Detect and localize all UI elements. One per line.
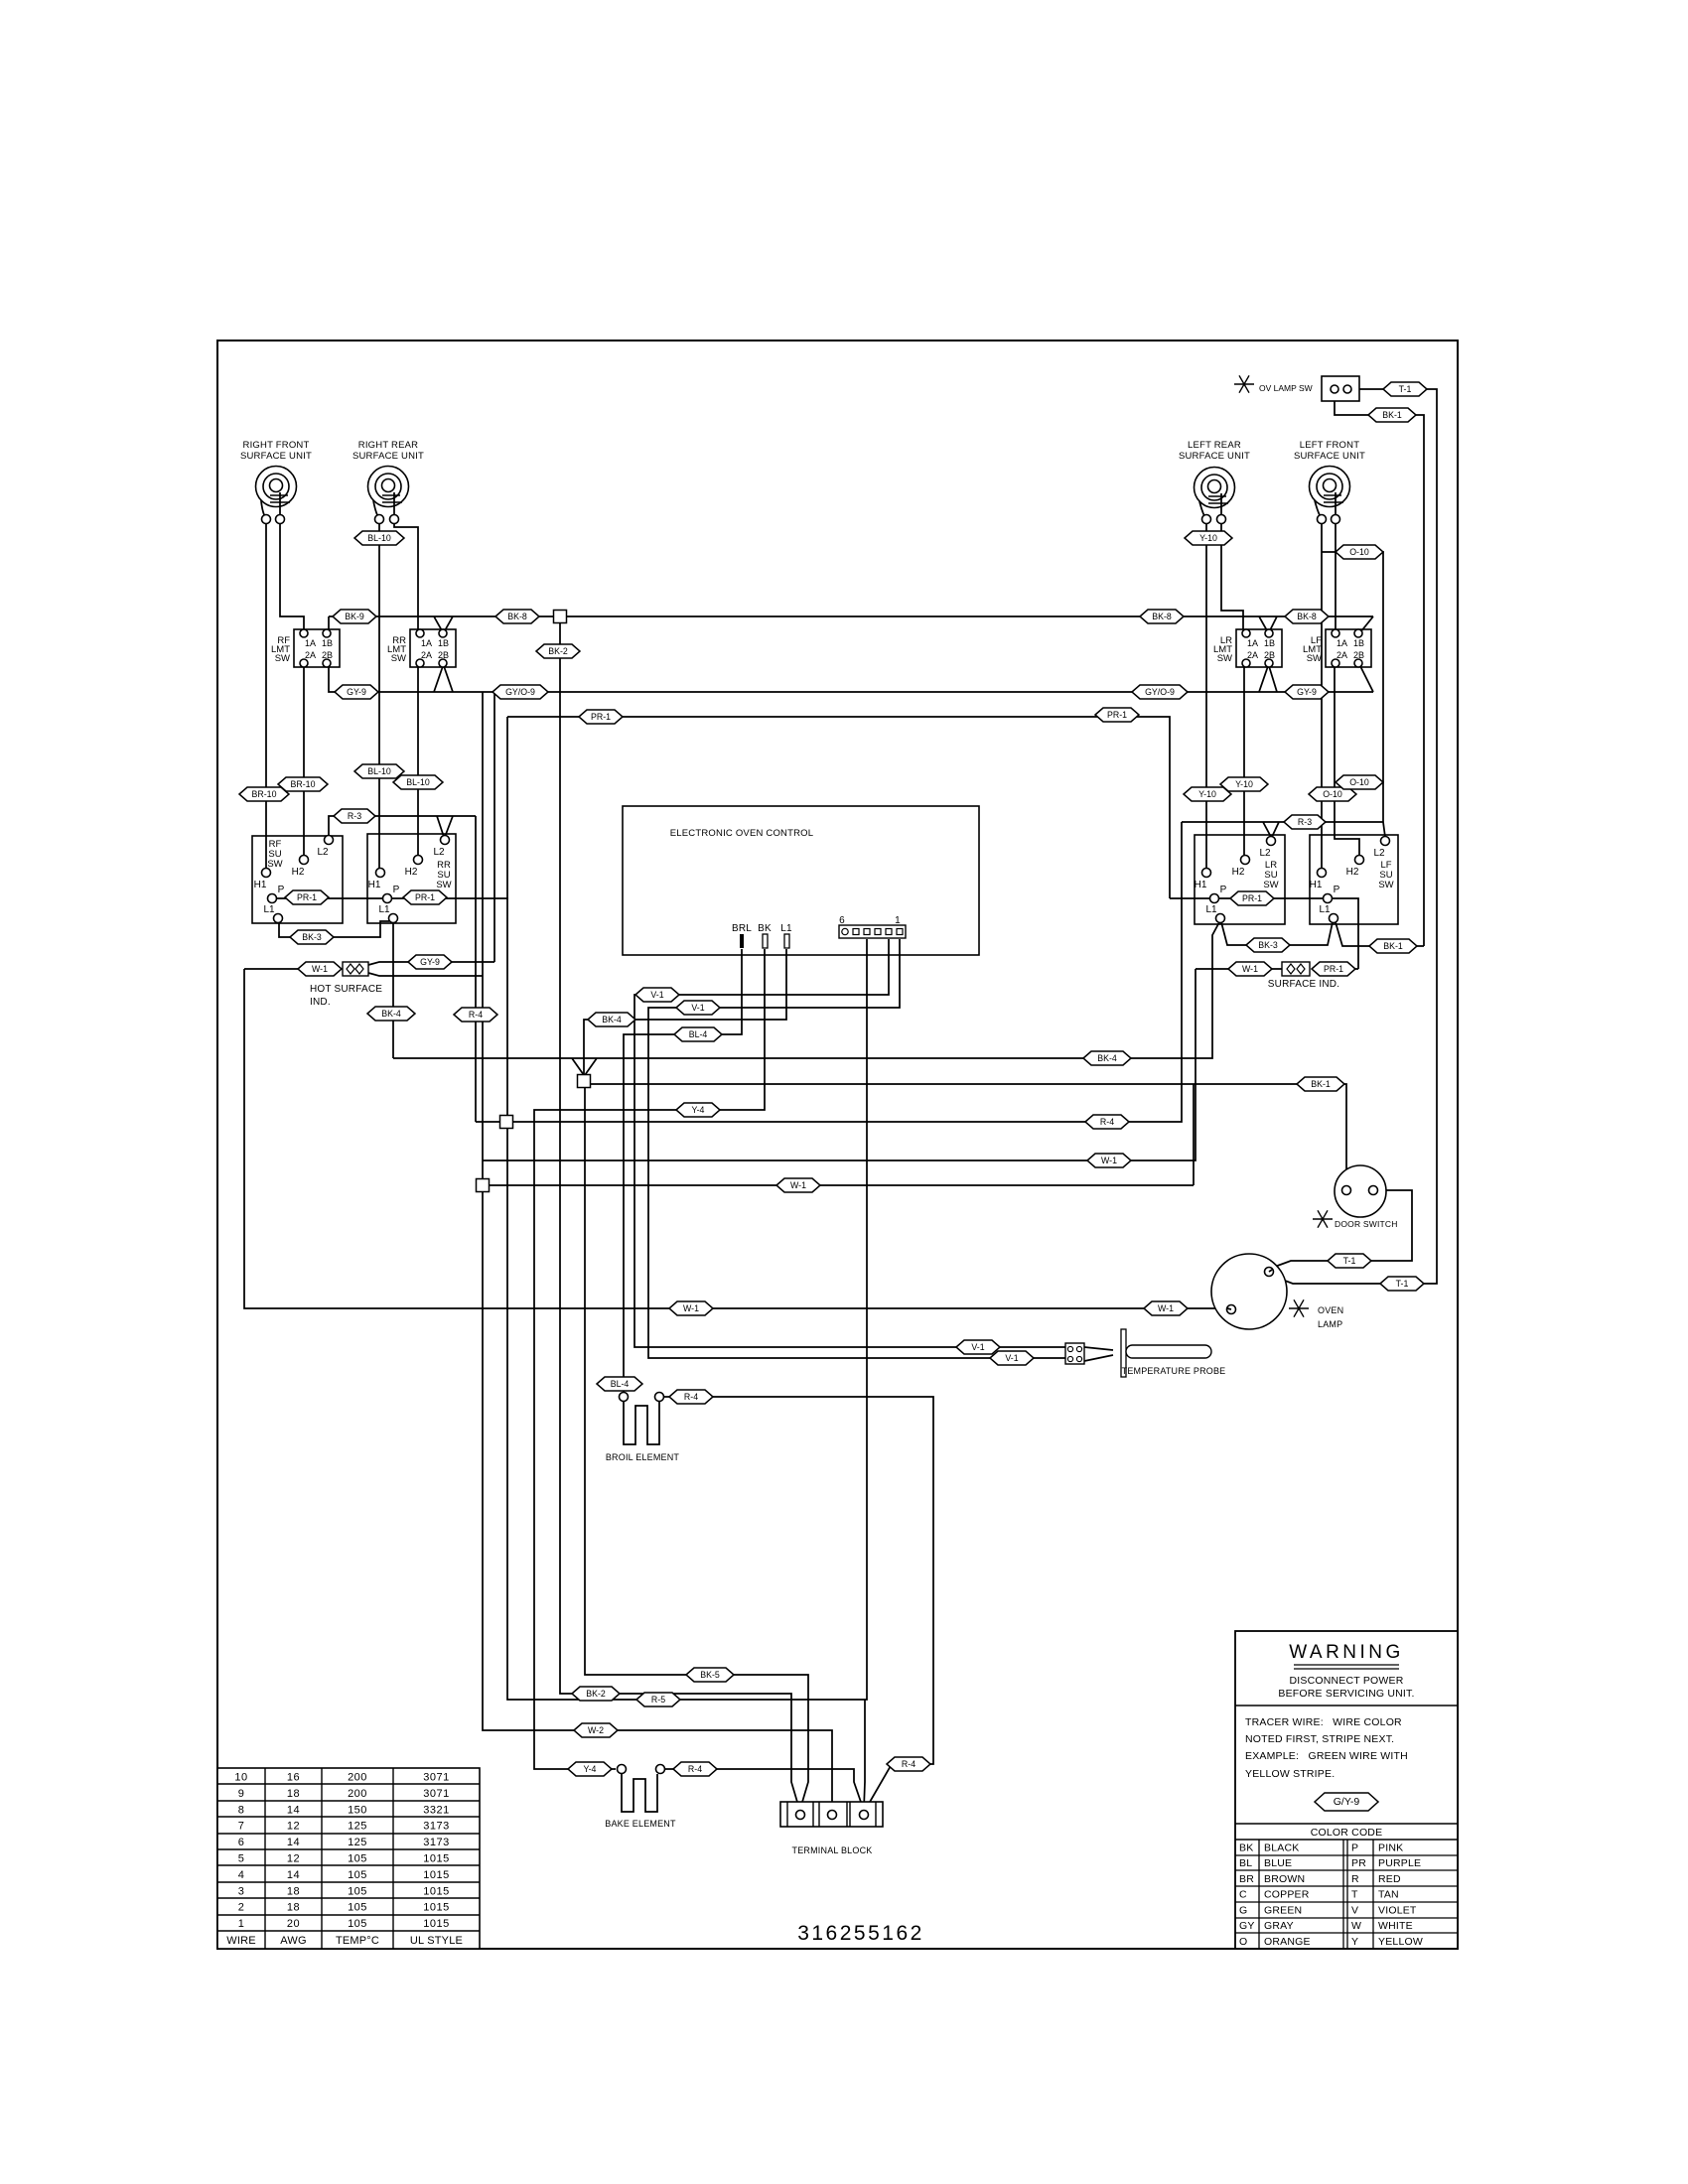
svg-text:1015: 1015	[423, 1853, 449, 1865]
wire BK-1 from oven lamp switch down to LF switch L1 net	[1335, 401, 1424, 946]
svg-text:200: 200	[348, 1772, 367, 1784]
wire label BK-3 right	[1246, 938, 1290, 952]
wire RR LMT 2A to RR SU H2	[417, 667, 419, 855]
svg-text:L2: L2	[1373, 848, 1385, 859]
svg-text:T-1: T-1	[1343, 1256, 1356, 1266]
svg-text:ORANGE: ORANGE	[1264, 1936, 1311, 1948]
svg-text:SURFACE IND.: SURFACE IND.	[1268, 979, 1339, 990]
terminal block	[780, 1802, 883, 1827]
wire label BK-8 b	[1140, 610, 1184, 623]
wire W-1 right surface indicator	[1196, 968, 1282, 970]
wire GY-9/GY-O-9 bus across limit switches	[329, 666, 1373, 692]
wire label BK-8 c	[1285, 610, 1329, 623]
svg-text:V-1: V-1	[691, 1003, 704, 1013]
svg-text:T: T	[1351, 1889, 1358, 1901]
connector label T-1 top	[1383, 382, 1427, 396]
svg-text:BK-8: BK-8	[1297, 612, 1317, 621]
svg-text:14: 14	[287, 1869, 300, 1881]
svg-text:BK-1: BK-1	[1311, 1079, 1331, 1089]
svg-text:V-1: V-1	[971, 1342, 984, 1352]
wire R-4 broil element to terminal block	[664, 1397, 933, 1809]
coil RIGHT FRONT SURFACE UNIT	[256, 467, 297, 524]
label HOT SURFACE IND	[310, 984, 382, 1008]
svg-text:BEFORE SERVICING UNIT.: BEFORE SERVICING UNIT.	[1278, 1688, 1414, 1700]
wire label W-1 bottom mid	[669, 1301, 713, 1315]
svg-text:R-5: R-5	[651, 1695, 665, 1705]
wire label BK-5	[686, 1668, 734, 1682]
svg-text:BK-4: BK-4	[602, 1015, 622, 1024]
svg-text:W-1: W-1	[790, 1180, 806, 1190]
wire BK-4 run RR L1 to LR L1	[393, 922, 1219, 1075]
wire label BK-4 RR	[367, 1007, 415, 1021]
svg-text:20: 20	[287, 1918, 300, 1930]
wire label BR-10 right	[278, 777, 328, 791]
svg-text:H1: H1	[368, 880, 381, 890]
switch RF LMT SW	[271, 629, 340, 667]
wire GY-9 from hot surface indicator lower	[368, 973, 483, 976]
wire PR-1 left P line	[277, 717, 507, 898]
svg-text:BLUE: BLUE	[1264, 1857, 1292, 1869]
svg-text:PR-1: PR-1	[591, 712, 611, 722]
junction node 1	[578, 1075, 591, 1088]
svg-text:IND.: IND.	[310, 997, 331, 1008]
wire LR LMT 2A to LR SU H2	[1243, 667, 1245, 855]
svg-text:GY: GY	[1239, 1920, 1255, 1932]
label BAKE ELEMENT	[605, 1819, 676, 1829]
lamp OVEN LAMP	[1211, 1254, 1287, 1329]
svg-text:LEFT REAR: LEFT REAR	[1188, 440, 1241, 451]
svg-text:H2: H2	[1232, 867, 1245, 878]
wire label W-1 surface ind	[1228, 962, 1272, 976]
wire label V-1 a	[635, 988, 679, 1002]
svg-text:W-1: W-1	[1101, 1156, 1117, 1165]
wire R-3 right between LR L2 and LF L2	[1182, 822, 1385, 837]
label part number 316255162	[797, 1922, 924, 1945]
svg-text:2: 2	[238, 1902, 245, 1914]
svg-text:OVEN: OVEN	[1318, 1305, 1343, 1315]
svg-text:T-1: T-1	[1399, 384, 1412, 394]
wire label V-1 probe upper	[956, 1340, 1000, 1354]
svg-text:O-10: O-10	[1349, 777, 1369, 787]
svg-text:1B: 1B	[322, 638, 333, 648]
svg-text:18: 18	[287, 1788, 300, 1800]
wire label BK-8 a	[495, 610, 539, 623]
svg-text:PR-1: PR-1	[415, 892, 435, 902]
wire label W-1 long	[776, 1178, 820, 1192]
wire W-2 junction3 drop to terminal block	[483, 1189, 832, 1810]
svg-text:316255162: 316255162	[797, 1922, 924, 1945]
svg-text:ELECTRONIC OVEN CONTROL: ELECTRONIC OVEN CONTROL	[670, 828, 813, 839]
svg-text:GY-9: GY-9	[347, 687, 366, 697]
asterisk DOOR SWITCH	[1313, 1210, 1333, 1227]
svg-text:Y-10: Y-10	[1199, 533, 1217, 543]
svg-text:HOT SURFACE: HOT SURFACE	[310, 984, 382, 995]
svg-text:Y-10: Y-10	[1235, 779, 1253, 789]
svg-text:3173: 3173	[423, 1837, 449, 1848]
svg-text:H2: H2	[292, 867, 305, 878]
wire label Y-4 bake	[568, 1762, 612, 1776]
wire T-1 from oven lamp switch to oven lamp (right vertical)	[1272, 389, 1437, 1284]
label ELECTRONIC OVEN CONTROL	[670, 828, 813, 839]
svg-text:RIGHT FRONT: RIGHT FRONT	[243, 440, 310, 451]
wire label O-10 left	[1309, 787, 1356, 801]
svg-text:TEMPERATURE PROBE: TEMPERATURE PROBE	[1122, 1366, 1226, 1376]
wire label Y-10 left	[1184, 787, 1231, 801]
label TERMINAL BLOCK	[792, 1845, 873, 1855]
svg-text:GRAY: GRAY	[1264, 1920, 1294, 1932]
svg-text:W: W	[1351, 1920, 1361, 1932]
svg-text:4: 4	[238, 1869, 245, 1881]
switch RR LMT SW	[387, 629, 456, 667]
wire label Y-4 upper	[676, 1103, 720, 1117]
svg-text:SW: SW	[267, 859, 282, 870]
wire R-4 run to right riser	[476, 822, 1182, 1122]
warning and color code panel	[1235, 1631, 1458, 1949]
svg-text:BK-9: BK-9	[345, 612, 364, 621]
wire label BL-10 upper	[354, 531, 404, 545]
svg-text:R-4: R-4	[902, 1759, 915, 1769]
svg-text:YELLOW STRIPE.: YELLOW STRIPE.	[1245, 1768, 1335, 1780]
svg-text:PR-1: PR-1	[1324, 964, 1343, 974]
svg-text:WHITE: WHITE	[1378, 1920, 1413, 1932]
svg-text:105: 105	[348, 1853, 367, 1865]
wire R-4 riser left (R-3 to R-4 run)	[475, 816, 477, 1122]
wire label R-4 long	[1085, 1115, 1129, 1129]
wire LF LMT 2A to LF SU H2	[1335, 667, 1359, 855]
svg-text:WARNING: WARNING	[1289, 1642, 1404, 1663]
svg-text:O-10: O-10	[1349, 547, 1369, 557]
svg-text:RIGHT REAR: RIGHT REAR	[358, 440, 418, 451]
asterisk OV LAMP SW	[1234, 375, 1254, 392]
svg-text:BR: BR	[1239, 1873, 1254, 1885]
svg-text:125: 125	[348, 1821, 367, 1833]
wire label BL-4 upper	[674, 1027, 722, 1041]
asterisk OVEN LAMP	[1289, 1299, 1309, 1316]
svg-text:O-10: O-10	[1323, 789, 1342, 799]
svg-text:2A: 2A	[1336, 650, 1347, 660]
svg-text:12: 12	[287, 1821, 300, 1833]
wire W-1 long run junction3 east	[483, 1184, 1194, 1186]
switch LR LMT SW	[1213, 629, 1282, 667]
wire label T-1 lamp upper	[1328, 1254, 1371, 1268]
svg-text:L2: L2	[317, 847, 329, 858]
wire label GY/O-9 a	[492, 685, 548, 699]
svg-text:14: 14	[287, 1804, 300, 1816]
wire RF coil left lead to H1	[265, 523, 267, 869]
svg-text:DOOR SWITCH: DOOR SWITCH	[1335, 1219, 1398, 1229]
pin EOC L1	[780, 923, 792, 948]
table wire gauge	[217, 1768, 480, 1949]
svg-text:SW: SW	[1378, 880, 1393, 890]
wire label BL-10 right	[393, 775, 443, 789]
svg-text:1: 1	[238, 1918, 245, 1930]
svg-text:H1: H1	[254, 880, 267, 890]
svg-text:2A: 2A	[421, 650, 432, 660]
svg-text:GREEN: GREEN	[1264, 1904, 1302, 1916]
svg-text:BK-8: BK-8	[1152, 612, 1172, 621]
wire label PR-1 RF	[285, 890, 329, 904]
svg-text:7: 7	[238, 1821, 245, 1833]
svg-text:BRL: BRL	[732, 923, 752, 934]
svg-text:V: V	[1351, 1904, 1358, 1916]
wire BK-9/BK-8 bus across limit switches	[329, 616, 1373, 632]
svg-text:1: 1	[895, 915, 901, 926]
label SURFACE IND	[1268, 979, 1339, 990]
wire label GY/O-9 b	[1132, 685, 1188, 699]
wire BK-2 from BK-9 junction down to terminal block	[560, 622, 799, 1809]
wire LR coil left lead to H1	[1205, 523, 1207, 868]
svg-text:Y-4: Y-4	[692, 1105, 705, 1115]
svg-text:GY-9: GY-9	[420, 957, 440, 967]
wire label BK-9	[333, 610, 376, 623]
svg-text:GY-9: GY-9	[1297, 687, 1317, 697]
svg-text:6: 6	[839, 915, 845, 926]
svg-text:BK-2: BK-2	[586, 1689, 606, 1699]
svg-text:18: 18	[287, 1902, 300, 1914]
junction node BK bus	[554, 611, 567, 623]
wire BK-1 junction1 to door switch left pin	[590, 1084, 1346, 1185]
coil LEFT FRONT SURFACE UNIT	[1310, 467, 1350, 524]
svg-text:BK: BK	[758, 923, 772, 934]
svg-text:P: P	[1351, 1843, 1358, 1854]
label OV LAMP SW	[1259, 383, 1313, 393]
wire label Y-10 right	[1220, 777, 1268, 791]
svg-text:2A: 2A	[305, 650, 316, 660]
svg-text:COPPER: COPPER	[1264, 1889, 1310, 1901]
wire R-3 left between RF L2 and RR L2	[329, 816, 476, 837]
svg-text:1015: 1015	[423, 1918, 449, 1930]
svg-text:SURFACE UNIT: SURFACE UNIT	[1294, 451, 1365, 462]
label RIGHT FRONT SURFACE UNIT	[240, 440, 312, 462]
svg-text:BK-4: BK-4	[381, 1009, 401, 1019]
element BAKE ELEMENT	[618, 1765, 665, 1813]
svg-text:16: 16	[287, 1772, 300, 1784]
wire W-1 upper run from surface indicator	[483, 969, 1196, 1160]
svg-text:BROWN: BROWN	[1264, 1873, 1305, 1885]
svg-text:BR-10: BR-10	[252, 789, 277, 799]
svg-text:V-1: V-1	[1005, 1353, 1018, 1363]
wire label R-5	[636, 1693, 680, 1706]
svg-text:PR-1: PR-1	[297, 892, 317, 902]
wire label GY-9 b	[1285, 685, 1329, 699]
wire label PR-1 RR	[403, 890, 447, 904]
svg-text:8: 8	[238, 1804, 245, 1816]
svg-text:P: P	[1334, 885, 1340, 895]
wire GY tap down to junction3	[482, 692, 484, 1180]
svg-text:1B: 1B	[438, 638, 449, 648]
svg-text:Y-10: Y-10	[1198, 789, 1216, 799]
wire label BK-1 right	[1369, 939, 1417, 953]
svg-text:2B: 2B	[1264, 650, 1275, 660]
svg-text:G/Y-9: G/Y-9	[1334, 1796, 1360, 1808]
svg-text:P: P	[278, 885, 285, 895]
svg-text:G: G	[1239, 1904, 1247, 1916]
label LEFT REAR SURFACE UNIT	[1179, 440, 1250, 462]
svg-text:R-4: R-4	[469, 1010, 483, 1020]
svg-text:SW: SW	[1263, 880, 1278, 890]
wire label O-10 right	[1336, 775, 1383, 789]
svg-text:18: 18	[287, 1885, 300, 1897]
wire LR coil right lead to LR LMT 1A	[1221, 523, 1243, 629]
wire label O-10 upper	[1336, 545, 1383, 559]
connector EOC 6-pin	[839, 915, 906, 938]
svg-text:R-4: R-4	[688, 1764, 702, 1774]
svg-text:BLACK: BLACK	[1264, 1843, 1299, 1854]
wire label GY-9 a	[335, 685, 378, 699]
svg-text:1B: 1B	[1264, 638, 1275, 648]
label OVEN LAMP	[1318, 1305, 1343, 1329]
label DOOR SWITCH	[1335, 1219, 1398, 1229]
svg-text:SURFACE UNIT: SURFACE UNIT	[240, 451, 312, 462]
wire label R-4 broil	[669, 1390, 713, 1404]
svg-text:H2: H2	[1346, 867, 1359, 878]
svg-text:BL-4: BL-4	[689, 1029, 708, 1039]
drawing border frame	[217, 341, 1458, 1949]
wire label PR-1 LR	[1230, 891, 1274, 905]
wire label R-4 left riser	[454, 1008, 497, 1022]
svg-text:BL-10: BL-10	[367, 766, 391, 776]
svg-text:BK-1: BK-1	[1383, 941, 1403, 951]
svg-text:L2: L2	[1259, 848, 1271, 859]
wire W-1 bottom run to oven lamp	[244, 969, 1227, 1308]
wire label BL-10 left	[354, 764, 404, 778]
wire label BK-3 left	[290, 930, 334, 944]
svg-text:3071: 3071	[423, 1772, 449, 1784]
svg-text:SW: SW	[436, 880, 451, 890]
svg-text:1015: 1015	[423, 1902, 449, 1914]
svg-text:1A: 1A	[305, 638, 316, 648]
wire GY-9 from hot surface indicator upper	[368, 962, 494, 965]
switch LF LMT SW	[1303, 629, 1371, 667]
svg-text:W-1: W-1	[1242, 964, 1258, 974]
label LEFT FRONT SURFACE UNIT	[1294, 440, 1365, 462]
svg-text:105: 105	[348, 1869, 367, 1881]
wire label BK-4 mid	[588, 1013, 635, 1026]
svg-text:YELLOW: YELLOW	[1378, 1936, 1423, 1948]
wire O-10 branch LF left lead to L2 riser	[1322, 552, 1383, 822]
wire PR-1 long run	[507, 717, 1170, 898]
svg-text:SURFACE UNIT: SURFACE UNIT	[352, 451, 424, 462]
wire Y-4 from EOC BK pin to bake element	[534, 949, 765, 1769]
wire label W-1 lamp left	[1144, 1301, 1188, 1315]
wire BK-3 left between RF L1 and RR L1	[279, 921, 389, 937]
svg-text:OV LAMP SW: OV LAMP SW	[1259, 383, 1313, 393]
svg-text:VIOLET: VIOLET	[1378, 1904, 1417, 1916]
indicator SURFACE IND	[1282, 962, 1310, 976]
connector label BK-1 top	[1368, 408, 1416, 422]
wire label PR-1 long right	[1095, 708, 1139, 722]
svg-text:SW: SW	[1307, 653, 1322, 664]
svg-text:L1: L1	[1319, 904, 1331, 915]
svg-text:UL STYLE: UL STYLE	[410, 1935, 463, 1947]
svg-text:125: 125	[348, 1837, 367, 1848]
svg-text:R-4: R-4	[684, 1392, 698, 1402]
svg-text:150: 150	[348, 1804, 367, 1816]
svg-text:P: P	[393, 885, 400, 895]
svg-text:L2: L2	[433, 847, 445, 858]
svg-text:105: 105	[348, 1918, 367, 1930]
svg-text:R: R	[1351, 1873, 1359, 1885]
wire V-1 lower from EOC pin to temperature probe	[648, 939, 1065, 1358]
svg-text:SW: SW	[275, 653, 290, 664]
pin EOC BK	[758, 923, 772, 948]
svg-text:COLOR CODE: COLOR CODE	[1311, 1827, 1383, 1839]
wire PR-1 right P line	[1170, 898, 1358, 969]
wire label BK-1 door	[1297, 1077, 1344, 1091]
svg-text:Y: Y	[1351, 1936, 1358, 1948]
svg-text:9: 9	[238, 1788, 245, 1800]
svg-text:TAN: TAN	[1378, 1889, 1399, 1901]
svg-text:DISCONNECT POWER: DISCONNECT POWER	[1289, 1675, 1403, 1687]
wire BL-4 from EOC BRL pin to broil element	[624, 949, 742, 1392]
svg-text:BK-2: BK-2	[548, 646, 568, 656]
svg-text:EXAMPLE: GREEN WIRE WITH: EXAMPLE: GREEN WIRE WITH	[1245, 1750, 1408, 1762]
svg-text:BK-8: BK-8	[507, 612, 527, 621]
svg-text:SURFACE UNIT: SURFACE UNIT	[1179, 451, 1250, 462]
svg-text:WIRE: WIRE	[226, 1935, 256, 1947]
svg-text:R-3: R-3	[348, 811, 361, 821]
svg-text:BK-3: BK-3	[1258, 940, 1278, 950]
switch RF SU SW	[252, 836, 343, 924]
svg-text:L1: L1	[378, 904, 390, 915]
wire R-4 bake element to terminal block	[665, 1769, 863, 1808]
wire LF coil left lead to H1	[1321, 523, 1323, 868]
wire PR-1 surface indicator to LF P	[1312, 968, 1358, 970]
wire BK-3 right between LR L1 and LF L1	[1221, 922, 1333, 945]
svg-text:C: C	[1239, 1889, 1247, 1901]
switch DOOR SWITCH	[1335, 1165, 1386, 1217]
svg-text:BL-4: BL-4	[611, 1379, 630, 1389]
svg-text:PURPLE: PURPLE	[1378, 1857, 1421, 1869]
wire label W-2	[574, 1723, 618, 1737]
wire RF LMT 1B riser	[328, 616, 330, 633]
label RIGHT REAR SURFACE UNIT	[352, 440, 424, 462]
wire label Y-10 upper	[1185, 531, 1232, 545]
wire label BL-4 broil	[597, 1377, 642, 1391]
svg-text:BL-10: BL-10	[406, 777, 430, 787]
wire label GY-9 hot surface	[408, 955, 452, 969]
svg-text:LEFT FRONT: LEFT FRONT	[1300, 440, 1359, 451]
wire link W-1 to BK-1 run	[1193, 1084, 1195, 1185]
label TEMPERATURE PROBE	[1122, 1366, 1226, 1376]
svg-text:3071: 3071	[423, 1788, 449, 1800]
wire PR riser down to junction2	[506, 897, 508, 1116]
wire label BK-4 right	[1083, 1051, 1131, 1065]
svg-text:14: 14	[287, 1837, 300, 1848]
wire label R-3 right	[1284, 815, 1326, 829]
svg-text:200: 200	[348, 1788, 367, 1800]
svg-text:BK-5: BK-5	[700, 1670, 720, 1680]
coil RIGHT REAR SURFACE UNIT	[368, 467, 409, 524]
svg-text:BROIL ELEMENT: BROIL ELEMENT	[606, 1452, 680, 1462]
label BROIL ELEMENT	[606, 1452, 680, 1462]
wire BK-1 LF L1 to right riser	[1336, 922, 1424, 946]
svg-text:3: 3	[238, 1885, 245, 1897]
wire label R-3 left	[334, 809, 375, 823]
indicator HOT SURFACE IND	[343, 962, 368, 976]
svg-text:2B: 2B	[322, 650, 333, 660]
svg-text:1B: 1B	[1353, 638, 1364, 648]
svg-text:AWG: AWG	[280, 1935, 306, 1947]
svg-text:2B: 2B	[438, 650, 449, 660]
pin OV LAMP SW left	[1331, 385, 1338, 393]
svg-text:10: 10	[234, 1772, 247, 1784]
svg-text:TEMP°C: TEMP°C	[336, 1935, 379, 1947]
svg-text:BK-4: BK-4	[1097, 1053, 1117, 1063]
svg-text:BL-10: BL-10	[367, 533, 391, 543]
coil LEFT REAR SURFACE UNIT	[1195, 468, 1235, 524]
sensor TEMPERATURE PROBE	[1065, 1329, 1211, 1377]
